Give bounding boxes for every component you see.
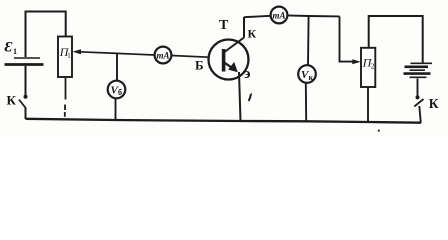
potentiometer P1 box (58, 37, 72, 78)
milliammeter mA2 circle (271, 7, 288, 24)
svg-text:2: 2 (371, 61, 375, 70)
switch K right: blade (414, 99, 423, 107)
wire: Vk bottom lead to rail (305, 83, 307, 122)
switch K left: blade (19, 100, 26, 109)
wiper arrowhead into P1 (73, 49, 82, 54)
battery B2 plate 3 (thin short) (410, 69, 426, 71)
svg-text:б: б (118, 88, 122, 97)
svg-text:1: 1 (67, 52, 71, 60)
speck under rail (378, 130, 380, 132)
voltmeter Vb circle (108, 81, 126, 99)
svg-text:1: 1 (13, 47, 17, 56)
battery B2 plate 5 (thin short) (410, 76, 427, 78)
svg-text:К: К (7, 92, 17, 107)
transistor base bar (222, 49, 226, 72)
battery E1 top plate (thin long) (14, 57, 40, 59)
potentiometer P2 box (361, 48, 375, 87)
battery B2 plate 1 (long thin) (411, 62, 433, 64)
battery E1 bottom plate (thick long) (5, 63, 44, 66)
wire: switch right to rail (419, 106, 421, 123)
voltmeter Vk circle (298, 65, 316, 83)
switch K right: contact dot (416, 95, 420, 99)
battery B2 plate 4 (thick) (404, 72, 431, 75)
wire: P2 bottom lead to rail (367, 87, 369, 122)
svg-text:к: к (309, 73, 314, 82)
wire: mA1 to base (171, 56, 208, 58)
svg-text:К: К (429, 96, 439, 111)
wiper arrowhead into P2 (352, 59, 360, 64)
node: junction to Vb (116, 53, 118, 80)
svg-text:Б: Б (195, 58, 204, 73)
wire: battery E1 to switch K (25, 66, 27, 96)
wire: P2 top lead and over to battery 2 (369, 16, 423, 63)
svg-text:К: К (248, 26, 257, 40)
svg-text:mA: mA (272, 10, 285, 20)
wire: collector up (243, 17, 245, 38)
switch K left: contact dot (24, 95, 28, 99)
wire: battery B2 to switch K right (417, 79, 419, 97)
wire: P1 wiper to mA1 (base circuit) (79, 52, 155, 55)
wire: top-left loop from battery E1 up and over to P1 top (26, 12, 66, 58)
wire: bottom rail (26, 119, 422, 123)
transistor emitter diagonal with arrow (225, 63, 234, 69)
speck: comma near emitter wire (249, 94, 252, 101)
wire: P1 bottom lead (dashed to rail) (65, 77, 67, 100)
svg-text:Т: Т (219, 18, 229, 33)
milliammeter mA1 circle (155, 47, 172, 64)
transistor collector diagonal (225, 38, 245, 53)
wire: Vb bottom lead to rail (115, 98, 117, 120)
transistor T circle (209, 40, 249, 80)
wire: wiper drop to P2 (340, 16, 354, 61)
battery B2 plate 2 (thick) (405, 66, 429, 69)
svg-text:mA: mA (156, 50, 169, 60)
svg-text:Ɛ: Ɛ (5, 40, 13, 56)
wire: mA2 to P2 wiper corner (287, 15, 339, 16)
wire: switch to bottom rail (25, 108, 27, 120)
node: junction down to Vk (307, 16, 310, 65)
wire: emitter down to rail (239, 72, 241, 121)
wire: collector top rail to mA2 (244, 16, 271, 17)
svg-text:э: э (244, 66, 250, 82)
